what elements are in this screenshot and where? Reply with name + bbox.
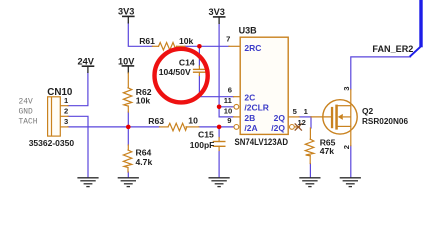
svg-text:C15: C15 — [198, 130, 214, 140]
svg-text:SN74LV123AD: SN74LV123AD — [235, 137, 289, 147]
svg-text:U3B: U3B — [239, 26, 258, 36]
svg-text:5: 5 — [293, 107, 298, 116]
svg-text:6: 6 — [228, 85, 232, 94]
svg-text:10V: 10V — [118, 57, 135, 67]
svg-text:/2CLR: /2CLR — [244, 103, 269, 113]
svg-text:2Q: 2Q — [274, 113, 286, 123]
svg-text:100pF: 100pF — [190, 140, 215, 150]
svg-text:10k: 10k — [136, 95, 151, 105]
svg-text:3: 3 — [64, 117, 68, 126]
svg-text:FAN_ER2: FAN_ER2 — [372, 44, 413, 54]
svg-text:3V3: 3V3 — [209, 7, 225, 17]
svg-text:12: 12 — [297, 118, 305, 127]
svg-text:2: 2 — [342, 145, 351, 149]
svg-text:35362-0350: 35362-0350 — [29, 138, 75, 148]
svg-text:R63: R63 — [148, 116, 164, 126]
svg-text:RSR020N06: RSR020N06 — [362, 116, 408, 126]
svg-text:2B: 2B — [244, 113, 255, 123]
svg-text:11: 11 — [224, 96, 233, 105]
svg-text:C14: C14 — [179, 58, 195, 68]
svg-text:/2A: /2A — [244, 123, 257, 133]
svg-text:R64: R64 — [136, 147, 152, 157]
svg-text:10: 10 — [188, 116, 198, 126]
svg-text:10k: 10k — [179, 36, 194, 46]
svg-text:Q2: Q2 — [362, 106, 374, 116]
svg-text:1: 1 — [304, 107, 309, 116]
svg-text:104/50V: 104/50V — [159, 67, 191, 77]
svg-text:TACH: TACH — [19, 117, 38, 126]
svg-text:10: 10 — [224, 106, 232, 115]
svg-text:3: 3 — [342, 87, 351, 91]
svg-text:GND: GND — [19, 107, 33, 116]
svg-text:9: 9 — [227, 116, 231, 125]
svg-text:47k: 47k — [320, 146, 335, 156]
svg-text:/2Q: /2Q — [271, 123, 285, 133]
svg-text:24V: 24V — [78, 56, 95, 66]
svg-text:2: 2 — [64, 107, 68, 116]
svg-text:CN10: CN10 — [47, 87, 73, 98]
svg-text:R61: R61 — [139, 36, 155, 46]
svg-text:2RC: 2RC — [244, 43, 261, 53]
svg-text:3V3: 3V3 — [118, 6, 134, 16]
svg-text:4.7k: 4.7k — [136, 157, 153, 167]
svg-text:7: 7 — [226, 34, 230, 43]
svg-text:2C: 2C — [244, 93, 255, 103]
svg-text:24V: 24V — [19, 97, 33, 106]
